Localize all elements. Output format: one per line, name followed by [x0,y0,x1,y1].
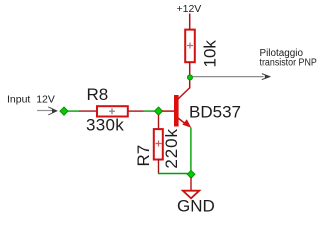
net label Pilotaggio transistor PNP [260,48,318,68]
svg-text:R8: R8 [87,85,109,104]
label R8 [87,85,109,104]
node junction A (input) [60,107,68,115]
svg-text:GND: GND [177,197,215,216]
power label +12V [177,3,202,15]
node junction B (base) [154,107,162,115]
label R7 [134,145,153,167]
svg-text:330k: 330k [86,116,124,135]
svg-text:transistor PNP: transistor PNP [260,58,318,69]
R7 bottom lead [158,160,160,174]
input arrow [37,107,57,115]
resistor R8 [97,106,128,116]
svg-text:BD537: BD537 [189,102,241,121]
transistor Q1 BD537 [174,77,191,127]
resistor R7 [154,129,163,159]
value 220k [162,128,181,168]
svg-text:R7: R7 [134,145,153,167]
wire R8 to base node [144,110,156,112]
R8 right lead [129,110,144,112]
value 10k [201,40,220,68]
node junction C (collector dot) [187,75,192,80]
R7 top lead [158,115,160,129]
wire R9 bottom to collector node [189,62,191,78]
svg-text:+12V: +12V [177,3,202,15]
label BD537 [189,102,241,121]
label GND [177,197,215,216]
wire +12V to R9 top [189,14,191,31]
net label Input 12V [7,94,55,106]
wire R7 to emitter node [158,173,188,175]
transistor Q1 base lead [162,110,174,112]
value 330k [86,116,124,135]
node junction D (emitter/gnd) [187,170,195,178]
svg-text:10k: 10k [201,40,220,68]
ground lead [190,177,192,190]
ground symbol [183,191,200,199]
wire emitter down [190,128,192,172]
output arrow [193,74,271,80]
wire input node to R8 [67,110,80,112]
R8 left lead [80,110,97,112]
svg-text:Input 12V: Input 12V [7,94,55,106]
resistor R9 (10k pullup) [185,30,195,63]
svg-text:220k: 220k [162,128,181,168]
